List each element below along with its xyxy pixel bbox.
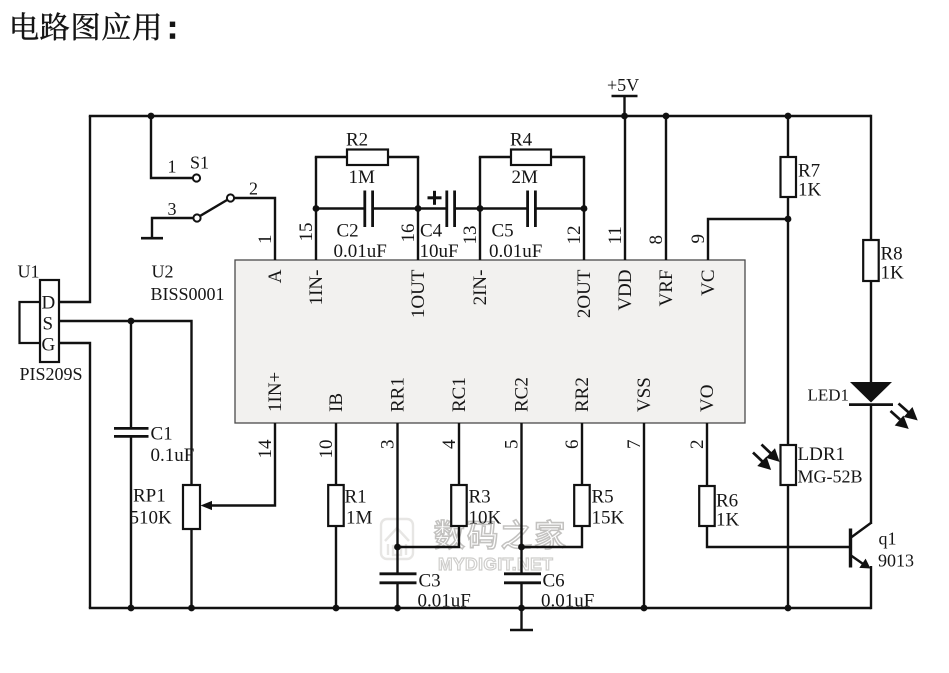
wire R4 right <box>551 156 585 158</box>
svg-text:S: S <box>43 314 54 335</box>
svg-text:3: 3 <box>168 199 177 219</box>
LED1 emission arrows <box>891 404 916 428</box>
wire C6 to bottom rail <box>520 583 522 608</box>
svg-text:6: 6 <box>562 440 583 450</box>
svg-text:PIS209S: PIS209S <box>20 364 83 384</box>
resistor R5 <box>574 485 590 526</box>
svg-text:8: 8 <box>646 235 667 245</box>
photoresistor LDR1 <box>781 445 797 485</box>
wire q1 base to R6 <box>707 526 850 547</box>
wire q1 emitter to bottom rail <box>870 566 872 609</box>
svg-text:U1: U1 <box>18 262 40 282</box>
LED LED1 <box>849 382 893 405</box>
svg-text:R4: R4 <box>510 130 533 151</box>
wire C2 right <box>373 207 418 209</box>
svg-text:+5V: +5V <box>607 75 639 95</box>
node C1 bottom on rail <box>128 605 135 612</box>
wire pin 13 column <box>479 157 481 260</box>
svg-text:3: 3 <box>378 440 399 450</box>
svg-text:13: 13 <box>460 226 481 245</box>
wire pin 3 RR1 column <box>396 423 398 574</box>
capacitor C1 <box>114 428 149 436</box>
wire R4 left <box>479 156 511 158</box>
IC U2 BISS0001 body <box>235 260 745 423</box>
wire R5 bottom to RC2 node <box>522 526 583 547</box>
wire pin 12 column <box>583 157 585 260</box>
svg-text:2IN-: 2IN- <box>470 270 491 306</box>
wire C3 to bottom rail <box>396 583 398 608</box>
page title 电路图应用: <box>13 12 176 40</box>
watermark text 数码之家 <box>435 520 565 550</box>
svg-text:MG-52B: MG-52B <box>798 467 863 487</box>
node pin15/C2 junction <box>313 205 320 212</box>
node pin13 junction <box>477 205 484 212</box>
svg-text:0.01uF: 0.01uF <box>334 241 387 262</box>
watermark logo MYDIGIT <box>381 519 413 559</box>
capacitor C4 polarity + <box>428 191 442 205</box>
node RC2/R5 junction <box>518 544 525 551</box>
svg-text:RR2: RR2 <box>572 377 593 412</box>
svg-text:9013: 9013 <box>878 551 914 571</box>
node C6 bottom on rail <box>518 605 525 612</box>
svg-text:1: 1 <box>168 157 177 177</box>
wire R2 right <box>388 156 419 158</box>
svg-text:VC: VC <box>698 270 719 296</box>
svg-text:R3: R3 <box>469 487 491 508</box>
wire C1 bottom <box>130 437 132 608</box>
wire pin 16 column <box>417 157 419 260</box>
svg-text:LDR1: LDR1 <box>798 444 846 465</box>
wire R2 left <box>315 156 347 158</box>
wire S1 branch <box>151 116 193 178</box>
svg-text:D: D <box>42 293 56 314</box>
svg-text:1K: 1K <box>716 510 740 531</box>
switch S1 terminal 2 contact <box>227 194 234 201</box>
svg-text:510K: 510K <box>130 508 173 529</box>
resistor R7 <box>781 157 797 197</box>
svg-text:1IN-: 1IN- <box>306 270 327 306</box>
node LDR bottom on rail <box>785 605 792 612</box>
svg-text:2: 2 <box>249 179 258 199</box>
wire left border lower (U1 G to bottom rail) <box>59 343 90 608</box>
svg-text:15K: 15K <box>592 508 625 529</box>
svg-text:MYDIGIT.NET: MYDIGIT.NET <box>438 554 553 574</box>
svg-text:1OUT: 1OUT <box>408 269 429 318</box>
svg-text:S1: S1 <box>190 153 209 173</box>
svg-text:C3: C3 <box>419 571 441 592</box>
svg-text:9: 9 <box>688 234 709 244</box>
switch S1 lever <box>200 200 227 216</box>
svg-text:RC2: RC2 <box>512 377 533 412</box>
capacitor C2 <box>365 191 373 228</box>
svg-text:R1: R1 <box>345 487 367 508</box>
wire C4 left <box>418 207 446 209</box>
wire R7 to LDR <box>787 197 789 445</box>
svg-text:IB: IB <box>326 393 347 412</box>
sensor U1 body PIS209S <box>40 280 59 362</box>
capacitor C3 <box>380 574 417 583</box>
node RP1 bottom on rail <box>188 605 195 612</box>
svg-text:7: 7 <box>624 440 645 450</box>
node pin12 junction <box>581 205 588 212</box>
svg-text:16: 16 <box>398 224 419 243</box>
wire C5 left <box>480 207 527 209</box>
svg-text:0.01uF: 0.01uF <box>541 591 594 612</box>
wire pin 9 VC to R7 node <box>708 219 788 260</box>
svg-text:RR1: RR1 <box>388 377 409 412</box>
wire S1 terminal 3 and ground stem <box>152 218 193 237</box>
node C3 bottom on rail <box>394 605 401 612</box>
capacitor C6 <box>504 574 541 583</box>
wire C1 top <box>130 321 132 428</box>
wire C4 right <box>455 207 480 209</box>
node VRF on rail <box>663 113 670 120</box>
svg-text:2M: 2M <box>512 167 539 188</box>
wire R8 to LED <box>870 281 872 383</box>
svg-text:4: 4 <box>439 439 460 449</box>
wire bottom rail <box>89 607 871 610</box>
switch S1 terminal 3 contact <box>193 214 200 221</box>
ground at S1 <box>141 237 163 240</box>
wire pin 4 RC1 to R3 <box>458 423 460 485</box>
wire left border upper (to U1 D) <box>59 116 90 302</box>
svg-text:VDD: VDD <box>615 270 636 311</box>
wire R3 bottom to RR1 node <box>398 526 460 547</box>
svg-text:C2: C2 <box>337 221 359 242</box>
svg-text:1IN+: 1IN+ <box>265 372 286 412</box>
svg-text:C5: C5 <box>492 221 514 242</box>
wire C5 right <box>536 207 584 209</box>
svg-text:VO: VO <box>697 385 718 412</box>
svg-text:1K: 1K <box>798 180 822 201</box>
wire C2 left <box>316 207 364 209</box>
node RR1/R3 junction <box>394 544 401 551</box>
svg-text:U2: U2 <box>152 262 174 282</box>
svg-text:0.1uF: 0.1uF <box>151 445 195 466</box>
RP1 wiper arrow from pin 14 <box>201 423 276 510</box>
LDR1 light arrows <box>753 445 778 469</box>
wire pin 6 RR2 to R5 <box>581 423 583 485</box>
svg-text:VRF: VRF <box>656 270 677 307</box>
svg-text:10: 10 <box>316 440 337 459</box>
svg-text:A: A <box>265 269 286 283</box>
wire S1 to pin 1 (A) <box>234 198 275 260</box>
wire top rail <box>89 115 871 118</box>
wire LED to q1 collector <box>870 404 872 524</box>
svg-text:C1: C1 <box>151 424 173 445</box>
svg-text:15: 15 <box>296 223 317 242</box>
node VSS bottom on rail <box>641 605 648 612</box>
node C1 top junction <box>128 318 135 325</box>
svg-text:C4: C4 <box>420 221 443 242</box>
node R1 bottom on rail <box>333 605 340 612</box>
svg-text:VSS: VSS <box>634 377 655 412</box>
wire pin 5 RC2 column <box>520 423 522 574</box>
wire pin 2 VO to R6 <box>706 423 708 486</box>
capacitor C4 <box>447 191 455 228</box>
svg-text:1M: 1M <box>346 508 373 529</box>
wire right column (top rail to R8) <box>870 115 872 240</box>
node S1 top junction <box>148 113 155 120</box>
wire pin 8 VRF column <box>665 116 667 260</box>
switch S1 terminal 1 contact <box>193 174 200 181</box>
svg-text:RC1: RC1 <box>449 377 470 412</box>
resistor R4 <box>511 150 551 166</box>
wire pin 10 IB column <box>335 423 337 485</box>
svg-text:10K: 10K <box>469 508 502 529</box>
svg-text:1: 1 <box>255 235 276 245</box>
sensor U1 window bracket <box>20 302 41 343</box>
node +5V on rail <box>621 113 628 120</box>
svg-text:1M: 1M <box>349 167 376 188</box>
wire R1 to bottom rail <box>335 526 337 608</box>
svg-text:BISS0001: BISS0001 <box>151 284 225 304</box>
potentiometer RP1 <box>183 485 200 529</box>
transistor q1 9013 <box>851 523 872 569</box>
node R7 top on rail <box>785 113 792 120</box>
svg-text:R2: R2 <box>346 130 368 151</box>
svg-text:0.01uF: 0.01uF <box>489 241 542 262</box>
node R7 bottom junction <box>785 216 792 223</box>
svg-text:12: 12 <box>564 226 585 245</box>
resistor R1 <box>328 485 344 526</box>
svg-text:2: 2 <box>687 440 708 450</box>
wire pin 11 VDD column <box>624 116 626 260</box>
svg-text:q1: q1 <box>879 529 897 549</box>
resistor R2 <box>347 150 388 166</box>
svg-text:G: G <box>42 335 56 356</box>
svg-text:RP1: RP1 <box>133 486 166 507</box>
resistor R8 <box>863 240 879 281</box>
svg-text:R5: R5 <box>592 487 614 508</box>
power +5V symbol <box>607 75 639 117</box>
svg-text:11: 11 <box>605 226 626 244</box>
wire LDR to bottom rail <box>787 485 789 608</box>
node pin16 junction <box>415 205 422 212</box>
svg-text:R7: R7 <box>798 161 820 182</box>
resistor R6 <box>699 486 715 526</box>
svg-text:R8: R8 <box>881 244 903 265</box>
svg-text:1K: 1K <box>881 263 905 284</box>
svg-text:14: 14 <box>255 439 276 459</box>
wire pin 15 column <box>315 157 317 260</box>
capacitor C5 <box>528 191 536 228</box>
wire RP1 to bottom rail <box>190 529 192 608</box>
svg-text:0.01uF: 0.01uF <box>418 591 471 612</box>
wire R7 top stub <box>787 116 789 157</box>
svg-text:2OUT: 2OUT <box>574 269 595 318</box>
svg-text:C6: C6 <box>543 571 565 592</box>
wire pin 7 VSS column <box>643 423 645 608</box>
svg-text:10uF: 10uF <box>420 241 459 262</box>
wire U1 S to RP1 <box>59 321 192 485</box>
svg-text:LED1: LED1 <box>808 386 850 405</box>
resistor R3 <box>451 485 467 526</box>
svg-text:5: 5 <box>502 440 523 450</box>
ground at bottom rail <box>510 608 533 630</box>
svg-text:R6: R6 <box>716 491 738 512</box>
